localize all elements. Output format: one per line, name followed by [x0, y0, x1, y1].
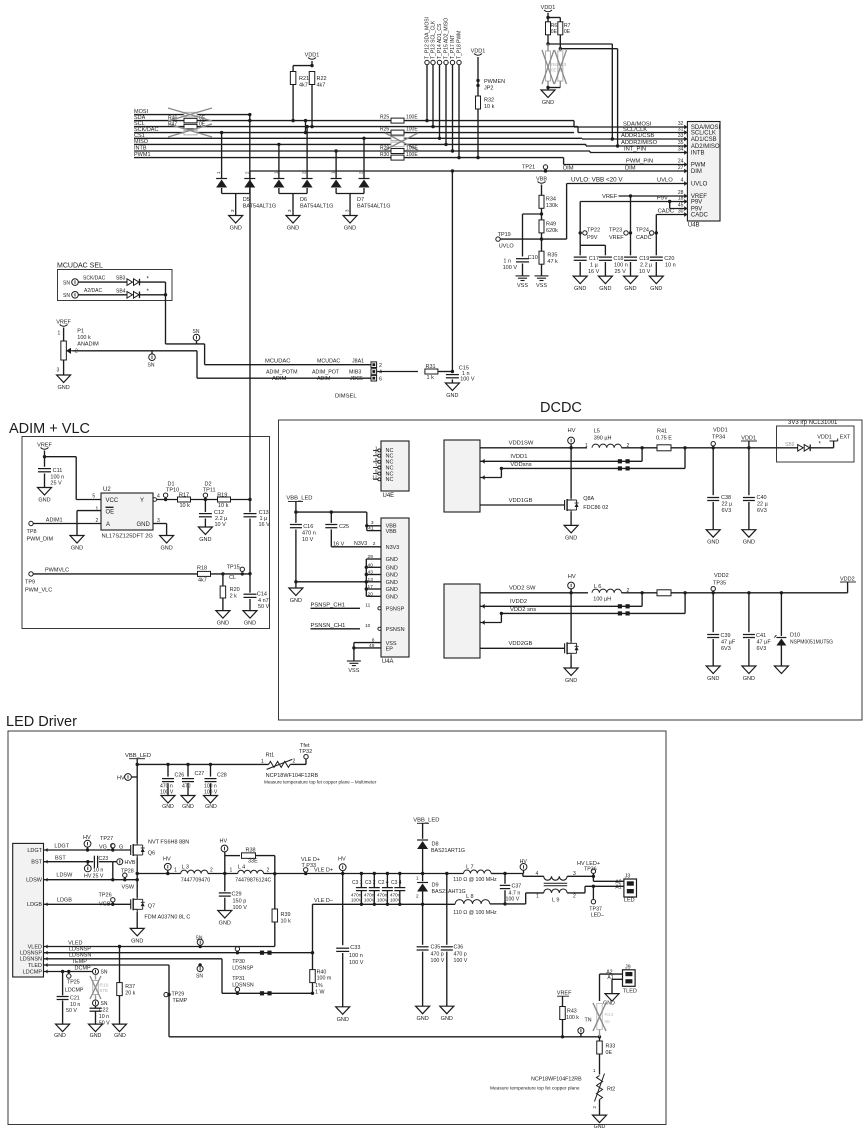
svg-text:10 V: 10 V	[302, 537, 314, 543]
svg-text:GND: GND	[707, 676, 719, 682]
svg-text:GND: GND	[199, 537, 211, 543]
resistor R29 100E	[391, 149, 404, 154]
ground under Q7	[130, 928, 144, 936]
svg-text:L5: L5	[594, 428, 600, 434]
svg-text:PSNSP_CH1: PSNSP_CH1	[311, 603, 345, 609]
wire diode column 6	[363, 138, 365, 178]
svg-text:390 µH: 390 µH	[594, 435, 612, 441]
sense link squares VDD1sns	[618, 466, 622, 470]
svg-text:J8A1: J8A1	[352, 359, 364, 365]
svg-text:R26: R26	[380, 127, 389, 133]
resistor R43 100k	[560, 1007, 566, 1020]
svg-text:CADC: CADC	[658, 209, 674, 215]
wire L9 pin3 to J3 A2	[567, 875, 593, 877]
wire CS1 to AD1/CSB pin	[581, 137, 583, 140]
wire DIM net	[250, 170, 687, 172]
svg-text:GND: GND	[386, 587, 398, 593]
wire ADIM_POT row to R31	[377, 371, 418, 373]
wire ANADIM from P1 wiper	[73, 350, 198, 352]
svg-text:FDM A037N0 8L C: FDM A037N0 8L C	[144, 915, 190, 921]
wire UVLO net	[498, 238, 567, 240]
wire R49 to UVLO row	[541, 233, 543, 239]
svg-text:110 Ω @ 100 MHz: 110 Ω @ 100 MHz	[453, 910, 497, 916]
svg-text:FDC86 02: FDC86 02	[583, 505, 608, 511]
svg-text:TP31: TP31	[232, 976, 245, 982]
svg-text:2: 2	[210, 868, 213, 874]
svg-text:R20: R20	[230, 587, 240, 593]
svg-text:1: 1	[536, 894, 539, 900]
svg-text:4: 4	[536, 871, 539, 877]
wire cap bank row	[137, 763, 268, 765]
svg-text:2: 2	[267, 868, 270, 874]
ground under C29	[218, 911, 232, 919]
svg-text:1 W: 1 W	[315, 990, 324, 996]
svg-text:0E: 0E	[551, 29, 558, 35]
ground under C26	[161, 796, 175, 804]
svg-text:4: 4	[379, 370, 382, 376]
svg-text:OE: OE	[106, 510, 115, 516]
test point TP32 Tfet	[304, 755, 308, 759]
svg-text:GND: GND	[114, 1033, 126, 1039]
svg-text:INTB: INTB	[134, 146, 147, 152]
svg-text:Y: Y	[140, 498, 144, 504]
svg-text:R39: R39	[281, 912, 291, 918]
transistor Q8B	[564, 643, 566, 653]
svg-text:D9: D9	[432, 883, 439, 889]
svg-text:ADIM: ADIM	[272, 376, 287, 382]
svg-text:1: 1	[261, 759, 264, 765]
svg-text:470 n: 470 n	[302, 531, 316, 537]
svg-text:6: 6	[379, 376, 382, 382]
svg-text:BAT54ALT1G: BAT54ALT1G	[243, 204, 276, 210]
probe HV on VDD1SW	[568, 437, 575, 444]
svg-text:NL17SZ125DFT 2G: NL17SZ125DFT 2G	[102, 534, 154, 540]
resistor R32 10k	[476, 96, 481, 109]
svg-text:100 V: 100 V	[160, 789, 174, 795]
svg-text:C3 1: C3 1	[352, 880, 363, 886]
svg-text:R38: R38	[246, 848, 256, 854]
svg-text:150 p: 150 p	[233, 898, 247, 904]
svg-text:100 V: 100 V	[460, 376, 475, 382]
ground under R20	[216, 611, 230, 619]
wire C13 to CL node	[249, 519, 251, 574]
svg-text:47 k: 47 k	[547, 259, 558, 265]
svg-text:R21: R21	[299, 76, 309, 82]
svg-text:MCUDAC: MCUDAC	[265, 359, 290, 365]
svg-text:VDDsns: VDDsns	[510, 462, 531, 468]
svg-text:TP15: TP15	[227, 564, 240, 570]
svg-text:D10: D10	[790, 633, 800, 639]
svg-text:VBB_LED: VBB_LED	[125, 753, 151, 759]
ground under R37	[113, 1024, 127, 1032]
capacitor C34 470n 100V	[394, 887, 405, 889]
svg-text:LDSW: LDSW	[26, 878, 43, 884]
svg-text:LDSNSN: LDSNSN	[20, 957, 42, 963]
diode D5 half 2	[244, 178, 255, 180]
capacitor C25 16V	[330, 512, 332, 523]
svg-text:3: 3	[371, 520, 374, 526]
svg-text:DIM: DIM	[563, 165, 574, 171]
svg-text:C20: C20	[664, 256, 674, 262]
IC U2 NL17SZ125DFT2G	[101, 493, 153, 530]
svg-text:C17: C17	[589, 256, 599, 262]
svg-text:TN: TN	[585, 1018, 592, 1024]
resistor R25 100E	[391, 118, 404, 123]
wire DIM vertical into ADIM box	[249, 171, 251, 512]
svg-text:2: 2	[573, 894, 576, 900]
svg-text:100 V: 100 V	[503, 265, 518, 271]
svg-text:HVB: HVB	[125, 860, 136, 866]
resistor R6 0E	[546, 22, 551, 35]
svg-text:IVDD1: IVDD1	[510, 454, 527, 460]
svg-text:GND: GND	[386, 565, 398, 571]
svg-text:BAT54ALT1G: BAT54ALT1G	[300, 204, 333, 210]
svg-text:VLE D+: VLE D+	[314, 867, 333, 873]
wire R18 to CL node	[211, 573, 250, 575]
svg-text:VDD1: VDD1	[471, 49, 486, 55]
svg-text:GND: GND	[205, 804, 217, 810]
svg-text:NC: NC	[386, 477, 394, 483]
wire VLED- down to shunt	[312, 904, 314, 952]
resistor R22 4k7	[309, 72, 315, 85]
ground under C40	[742, 530, 756, 538]
wire P9V vertical to TP22	[579, 202, 581, 246]
svg-text:C19: C19	[639, 256, 649, 262]
svg-text:U4A: U4A	[382, 659, 394, 665]
svg-text:2: 2	[379, 363, 382, 369]
svg-text:50 V: 50 V	[258, 604, 270, 610]
svg-text:T_P18 PWM: T_P18 PWM	[457, 31, 463, 59]
svg-text:R25: R25	[380, 115, 389, 121]
svg-text:34: 34	[678, 147, 684, 153]
sense link squares VDD2sns	[618, 611, 622, 615]
svg-text:Q7: Q7	[148, 903, 155, 909]
wire MISO bus	[134, 143, 586, 145]
svg-text:DCMP: DCMP	[75, 965, 92, 971]
wire L8 to L9 bottom	[490, 903, 505, 905]
svg-text:C22: C22	[99, 1008, 109, 1014]
node VDD1/R7 branch	[548, 17, 560, 19]
svg-text:DCDC: DCDC	[540, 400, 582, 416]
svg-text:VDD2GB: VDD2GB	[509, 641, 533, 647]
svg-text:TP24: TP24	[636, 228, 649, 234]
svg-text:TP11: TP11	[203, 488, 216, 494]
svg-text:33: 33	[678, 133, 684, 139]
DNP cross over R8	[542, 50, 554, 84]
svg-text:UVLO: UVLO	[657, 178, 673, 184]
svg-text:CADC: CADC	[636, 235, 652, 241]
wire diode pair 2 common anode	[278, 188, 280, 194]
sense wire VDD2sns	[684, 593, 686, 614]
test point TP21 DIM	[543, 165, 547, 169]
svg-text:2.2 µ: 2.2 µ	[640, 263, 653, 269]
svg-text:LED–: LED–	[591, 913, 604, 919]
svg-text:VDD2 SW: VDD2 SW	[509, 586, 536, 592]
test point TP31 LDSNSN	[235, 987, 239, 991]
svg-text:100 V: 100 V	[204, 789, 218, 795]
svg-text:100 n: 100 n	[349, 953, 363, 959]
svg-text:16 V: 16 V	[259, 522, 271, 528]
svg-text:VDD1: VDD1	[817, 435, 832, 441]
svg-text:C3 4: C3 4	[391, 880, 402, 886]
svg-text:L 4: L 4	[238, 865, 245, 871]
test point TP34 VDD1	[711, 442, 715, 446]
svg-text:R33: R33	[606, 1044, 616, 1050]
wire LDGT to Q6 gate	[44, 849, 131, 851]
net stub SN on TEMP	[197, 966, 203, 972]
net stub SN on LDCMP	[93, 969, 99, 975]
svg-text:C28: C28	[217, 773, 227, 779]
capacitor C36 470p 100V	[441, 946, 453, 948]
ground under Q8A	[564, 525, 578, 533]
svg-text:25 V: 25 V	[93, 874, 104, 880]
svg-text:L 8: L 8	[466, 894, 473, 900]
svg-text:1: 1	[230, 868, 233, 874]
svg-text:T_P17 INT: T_P17 INT	[450, 35, 456, 59]
capacitor C37 4.7n 100V	[504, 874, 506, 884]
svg-text:R49: R49	[546, 221, 556, 227]
svg-text:1: 1	[96, 507, 99, 513]
svg-text:100 V: 100 V	[454, 958, 468, 964]
svg-text:BAT54ALT1G: BAT54ALT1G	[357, 204, 390, 210]
wire T_P18 to bus	[458, 65, 460, 158]
wire VBB_LED rail to U4D VBB pins	[296, 511, 367, 513]
wire GND bus to C16 gnd	[296, 581, 366, 583]
ground under C11	[38, 488, 52, 496]
wire T_P15 to bus	[445, 65, 447, 145]
svg-text:TP27: TP27	[100, 836, 113, 842]
svg-text:GND: GND	[386, 580, 398, 586]
svg-text:LDGB: LDGB	[27, 902, 42, 908]
test point TP19 UVLO	[496, 237, 500, 241]
svg-text:TP28: TP28	[121, 869, 134, 875]
ground under C38	[706, 530, 720, 538]
svg-text:Q8A: Q8A	[583, 496, 594, 502]
svg-text:GND: GND	[131, 938, 143, 944]
svg-text:GND: GND	[38, 498, 50, 504]
wire VDD1GB gate drive	[480, 504, 565, 506]
wire VSW to L3	[137, 873, 181, 875]
test point TP28 VSW	[123, 873, 127, 877]
resistor R34 130k	[539, 195, 544, 208]
svg-text:PWM_VLC: PWM_VLC	[25, 588, 52, 594]
svg-text:C25: C25	[339, 524, 349, 530]
resistor R26 100E	[391, 130, 404, 135]
capacitor C11 100n 25V	[38, 468, 51, 470]
svg-text:VSS: VSS	[536, 283, 547, 289]
wire PWM1 bus	[134, 157, 564, 159]
svg-text:R35: R35	[547, 253, 557, 259]
wire A2/DAC to SB4	[78, 294, 127, 296]
svg-text:SN: SN	[63, 293, 70, 299]
svg-text:1: 1	[585, 443, 588, 449]
resistor R42 sense ch2	[657, 590, 671, 596]
DNP cross mark over R27/R28	[385, 133, 418, 150]
inductor L6 100uH	[592, 589, 622, 593]
svg-text:GND: GND	[217, 621, 229, 627]
svg-text:470: 470	[182, 784, 191, 790]
svg-text:SCL/CLK: SCL/CLK	[691, 131, 716, 137]
svg-text:GND: GND	[446, 393, 458, 399]
svg-text:2: 2	[416, 894, 419, 899]
capacitor C15 1n 100V	[451, 372, 453, 373]
svg-text:TP34: TP34	[712, 435, 725, 441]
resistor R40 100m 1% 1W	[312, 953, 314, 970]
svg-text:PWM_DIM: PWM_DIM	[27, 537, 54, 543]
svg-text:50 V: 50 V	[66, 1008, 77, 1014]
svg-text:R37: R37	[125, 984, 135, 990]
wire VDD2GB gate drive	[480, 647, 565, 649]
svg-text:VSW: VSW	[122, 885, 135, 891]
wire T_P14 to bus	[439, 65, 441, 139]
svg-text:25 V: 25 V	[50, 481, 62, 487]
svg-text:HV: HV	[568, 574, 576, 580]
U4A GND pins	[365, 559, 367, 596]
svg-text:0.75 E: 0.75 E	[656, 435, 672, 441]
wire C16 to GND node	[295, 529, 297, 581]
test point TP22 P9V	[579, 231, 582, 234]
svg-text:4k7: 4k7	[198, 578, 207, 584]
resistor R37 20k	[119, 947, 121, 983]
resistor R38 33E bypass	[225, 855, 240, 857]
svg-text:LDGB: LDGB	[57, 898, 72, 904]
svg-text:10 k: 10 k	[484, 104, 495, 110]
inductor L8 ferrite 110ohm	[455, 900, 490, 904]
wire R34 to R49	[541, 208, 543, 226]
resistor R7 0E	[558, 22, 563, 35]
wire Q8A drain	[570, 448, 572, 498]
svg-text:10 n: 10 n	[99, 1014, 109, 1020]
svg-text:100V: 100V	[364, 898, 376, 903]
svg-text:UVLO: VBB <20 V: UVLO: VBB <20 V	[571, 177, 623, 184]
net stub SN below RL6	[93, 1000, 99, 1006]
wire DIM vertical to R31/C15	[451, 171, 453, 372]
svg-text:VBB: VBB	[386, 529, 397, 535]
probe HV at L4 node	[224, 852, 226, 874]
svg-text:DIM: DIM	[691, 169, 702, 175]
svg-text:C38: C38	[721, 495, 731, 501]
wire Q6 source to LDSW node	[136, 858, 138, 898]
svg-text:GND: GND	[54, 1033, 66, 1039]
svg-text:R43: R43	[567, 1009, 577, 1015]
svg-text:C37: C37	[512, 884, 522, 890]
svg-text:100V: 100V	[390, 898, 402, 903]
wire L3 to node	[208, 873, 238, 875]
svg-text:10 n: 10 n	[93, 867, 103, 873]
test point TP25 LDCMP	[68, 972, 70, 974]
svg-text:U4B: U4B	[688, 223, 700, 229]
wire R32 to PWM1	[477, 109, 479, 158]
section box LED Driver	[8, 731, 666, 1125]
svg-text:ADDR2/MISO: ADDR2/MISO	[621, 140, 658, 146]
svg-text:TP21: TP21	[522, 165, 535, 171]
svg-text:43: 43	[368, 570, 374, 576]
wire SDA bus	[134, 120, 574, 122]
svg-text:VDD1: VDD1	[713, 428, 728, 434]
converter block U4 ch2	[444, 584, 480, 658]
resistor R20 2k	[222, 574, 224, 586]
svg-text:16 V: 16 V	[588, 269, 600, 275]
wire MISO to AD2/MISO pin	[585, 144, 587, 146]
svg-text:30: 30	[678, 209, 684, 215]
test point TP26 VGB	[111, 898, 115, 902]
svg-text:VREF: VREF	[609, 235, 624, 241]
svg-text:1: 1	[174, 868, 177, 874]
wire Q8B drain	[570, 593, 572, 642]
resistor R17 10k	[178, 497, 191, 502]
svg-text:BAS21ART1G: BAS21ART1G	[431, 848, 465, 854]
svg-text:MCUDAC: MCUDAC	[317, 359, 340, 365]
svg-text:IVDD2: IVDD2	[510, 599, 527, 605]
svg-text:UVLO: UVLO	[691, 182, 708, 188]
wire diode column 5	[335, 151, 337, 179]
wire MCUDAC net routing	[165, 295, 167, 344]
wire Q8B source to GND	[570, 655, 572, 668]
resistor R39 10k	[274, 874, 276, 909]
wire VLED row	[44, 946, 275, 948]
svg-text:100E: 100E	[406, 152, 418, 158]
ground under C20	[649, 276, 663, 284]
svg-text:R32: R32	[484, 98, 494, 104]
svg-text:SCL/CLK: SCL/CLK	[623, 127, 647, 133]
svg-text:PWM1: PWM1	[134, 152, 151, 158]
svg-text:EP: EP	[386, 647, 394, 653]
svg-text:HV: HV	[338, 857, 346, 863]
svg-text:GND: GND	[182, 804, 194, 810]
svg-text:R17: R17	[179, 492, 189, 498]
test point TP29 TEMP	[164, 992, 168, 996]
wire into SB9	[777, 447, 798, 449]
wire diode pair 1 common anode	[221, 188, 223, 194]
svg-text:ADIM: ADIM	[317, 376, 330, 382]
svg-text:10 n: 10 n	[70, 1002, 80, 1008]
wire SDA to SDA/MOSI pin	[573, 121, 575, 127]
svg-text:PWM: PWM	[691, 163, 706, 169]
capacitor C40 22u 6V3	[748, 448, 750, 495]
ground diode pair 2	[286, 216, 300, 224]
jumper JP2 PWMEN	[477, 57, 479, 96]
svg-text:C3 2: C3 2	[365, 880, 376, 886]
probe HV on VDD2SW	[568, 582, 575, 589]
svg-text:C39: C39	[721, 633, 731, 639]
svg-text:TP30: TP30	[232, 959, 245, 965]
wire diode column 3	[278, 144, 280, 178]
svg-text:PWMVLC: PWMVLC	[45, 567, 69, 573]
svg-text:P9V: P9V	[587, 235, 598, 241]
svg-text:11: 11	[365, 603, 370, 609]
wire VREF vertical to C19	[630, 196, 632, 255]
wire VLED+ jog to L9	[505, 873, 523, 875]
svg-text:LED Driver: LED Driver	[6, 714, 77, 730]
svg-text:3: 3	[57, 368, 60, 374]
svg-text:ADDR1/CSB: ADDR1/CSB	[621, 133, 654, 139]
wire P1 pin3 to GND	[63, 360, 65, 375]
svg-text:Measure temperature top fet co: Measure temperature top fet copper plane	[490, 1086, 580, 1092]
connector J8 pin 6	[371, 375, 377, 381]
wire VBB_LED to D8	[422, 823, 424, 839]
svg-text:100 V: 100 V	[506, 897, 520, 903]
svg-text:GND: GND	[743, 540, 755, 546]
svg-text:GND: GND	[244, 621, 256, 627]
svg-text:HV: HV	[220, 839, 228, 845]
svg-text:LDGT: LDGT	[54, 844, 69, 850]
svg-text:NC: NC	[386, 465, 394, 471]
svg-text:10 V: 10 V	[639, 269, 651, 275]
svg-text:100 V: 100 V	[349, 960, 364, 966]
svg-text:VDD2: VDD2	[714, 573, 729, 579]
probe HV on VLED+	[339, 864, 346, 871]
svg-text:VLED: VLED	[68, 940, 82, 946]
